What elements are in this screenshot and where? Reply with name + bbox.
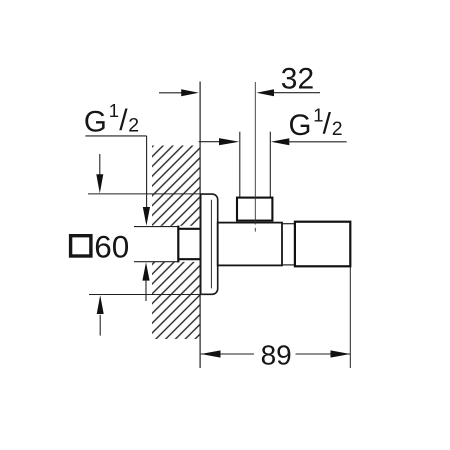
dim 60 bottom up arrow — [97, 295, 104, 314]
svg-text:/: / — [323, 107, 332, 140]
supply pipe in wall top line — [134, 226, 179, 228]
dim G12 right left arrow — [219, 138, 239, 145]
label G 1/2 left underline — [85, 135, 146, 137]
neck top line — [282, 223, 295, 225]
label G 1/2 right — [289, 105, 343, 142]
valve body — [218, 223, 282, 266]
wall hatching upper part — [152, 146, 200, 226]
label G 1/2 left — [84, 100, 139, 138]
dim 32 left tail — [159, 92, 183, 94]
dim 89 line left segment — [201, 353, 254, 355]
supply pipe in wall bottom line — [134, 261, 179, 263]
dim G12 right right arrow — [271, 138, 290, 145]
dim G12 right line right segment — [288, 141, 347, 143]
wall hatching lower part — [152, 262, 200, 339]
outlet pipe right wall — [269, 132, 271, 198]
dim 60 top down arrow — [96, 174, 103, 193]
wall flange escutcheon — [201, 194, 218, 294]
svg-text:G: G — [84, 105, 107, 138]
leader down arrow — [143, 207, 150, 226]
dim 89 line right segment — [296, 353, 351, 355]
dim 60 bottom extension line — [89, 294, 202, 296]
svg-text:/: / — [119, 104, 128, 137]
dim 89 left arrow — [201, 350, 221, 357]
square handle — [295, 222, 350, 267]
outlet pipe left wall — [239, 132, 241, 198]
dim 89 right arrow — [331, 350, 351, 357]
dim 60 bottom arrow tail — [99, 315, 101, 336]
svg-text:1: 1 — [109, 100, 119, 121]
square symbol — [71, 236, 91, 256]
flange face inner line — [210, 200, 212, 289]
valve inlet nipple top edge — [178, 228, 200, 230]
dim 89 right extension line — [349, 267, 351, 368]
dim 32 left arrow — [181, 89, 199, 96]
svg-text:60: 60 — [94, 228, 129, 264]
svg-text:89: 89 — [261, 339, 292, 370]
center line end dash — [254, 228, 256, 232]
dim 60 top extension line — [88, 193, 201, 195]
outlet nut — [237, 198, 272, 221]
dim G12 right line left segment — [199, 141, 223, 143]
inlet bottom up arrow — [142, 262, 149, 280]
center line — [254, 82, 256, 225]
svg-text:G: G — [289, 109, 312, 142]
dim 32 right tail — [273, 92, 320, 94]
wall face line — [199, 82, 201, 369]
svg-text:2: 2 — [332, 118, 343, 140]
svg-text:32: 32 — [281, 63, 314, 96]
svg-text:2: 2 — [128, 114, 139, 136]
valve inlet nipple left edge — [177, 226, 179, 263]
dim 32 right arrow — [256, 89, 274, 96]
neck bottom line — [282, 264, 295, 266]
valve inlet nipple bottom edge — [178, 258, 200, 260]
leader vertical to inlet — [146, 136, 148, 213]
inlet bottom arrow tail — [145, 280, 147, 301]
dim 60 top arrow tail — [99, 154, 101, 175]
